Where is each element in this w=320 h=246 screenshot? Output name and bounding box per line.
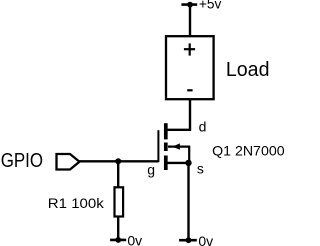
node +5v junction dot (187, 2, 193, 8)
wire gpio port to gate (80, 160, 159, 162)
ground 0v right bar (179, 239, 197, 242)
load polarity + mark (184, 43, 195, 55)
load polarity - mark (187, 89, 192, 91)
resistor R1 body (115, 187, 124, 216)
svg-text:R1 100k: R1 100k (48, 195, 105, 211)
ground 0v left dot (115, 237, 121, 243)
transistor Q1 gate line (157, 130, 159, 162)
wire load bottom to drain (166, 99, 190, 130)
transistor Q1 body wire with arrow (168, 143, 190, 163)
svg-text:0v: 0v (198, 233, 213, 246)
wire resistor R1 to ground (117, 217, 119, 240)
transistor Q1 channel bar top (drain) (164, 123, 168, 139)
ground 0v left bar (110, 239, 126, 242)
svg-text:s: s (197, 160, 204, 176)
node gate junction dot (115, 158, 121, 164)
svg-text:Q1 2N7000: Q1 2N7000 (212, 143, 285, 159)
ground 0v right dot (186, 237, 192, 243)
svg-text:+5v: +5v (199, 0, 222, 11)
wire junction to resistor R1 (117, 161, 119, 187)
port GPIO pentagon (57, 154, 80, 170)
svg-text:d: d (199, 118, 207, 134)
svg-text:Load: Load (226, 59, 270, 81)
svg-text:0v: 0v (127, 233, 142, 246)
svg-text:GPIO: GPIO (1, 150, 43, 172)
transistor Q1 channel bar middle (body) (164, 143, 168, 152)
power rail +5v bar (181, 3, 197, 6)
wire source bar to junction (166, 162, 190, 164)
wire +5v rail to load top (189, 5, 191, 36)
svg-text:g: g (147, 161, 155, 177)
node source junction dot (185, 160, 191, 166)
transistor Q1 channel bar bottom (source) (164, 156, 168, 171)
wire source junction to ground (187, 163, 189, 240)
load LOAD1 box (166, 36, 214, 99)
